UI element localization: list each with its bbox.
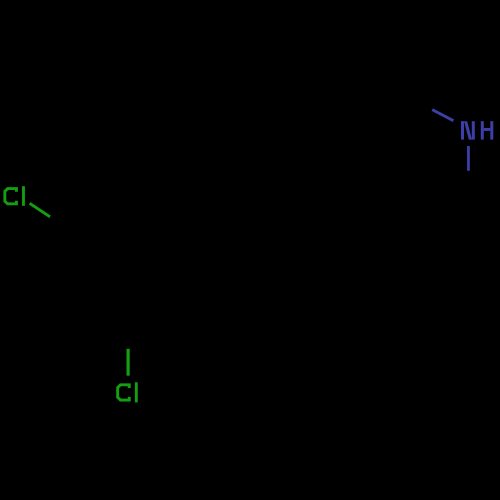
atom label NH: letter N xyxy=(461,121,475,139)
atom label Cl (top left): letter l xyxy=(22,186,25,206)
wire: carbon skeleton (black bonds, invisible on black) xyxy=(74,95,408,353)
bond N-C (blue half-bond, vertical below NH) xyxy=(467,146,470,171)
atom label Cl (bottom): letter C xyxy=(118,385,130,400)
atom label Cl (top left): letter C xyxy=(5,189,17,204)
atom label Cl (bottom): letter l xyxy=(135,382,138,402)
bond Cl1-C (green half-bond, top left) xyxy=(30,203,50,217)
atom label NH: letter H xyxy=(481,121,494,139)
bond C-N (blue half-bond, diagonal) xyxy=(432,110,453,121)
bond Cl2-C (green half-bond, bottom, vertical) xyxy=(127,349,130,376)
